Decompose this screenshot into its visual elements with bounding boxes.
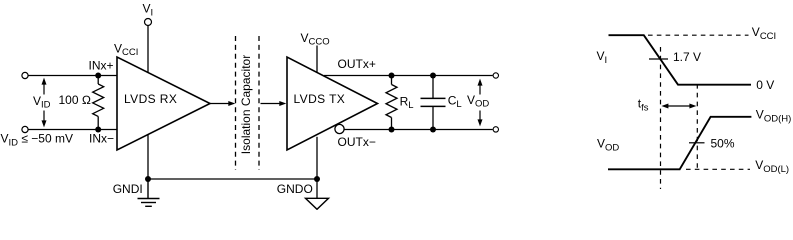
wire RX ground pin xyxy=(147,134,149,179)
svg-text:OUTx+: OUTx+ xyxy=(338,57,376,71)
svg-text:OUTx−: OUTx− xyxy=(338,135,376,149)
junction node GNDO xyxy=(314,176,320,182)
wire OUTx- xyxy=(344,129,492,131)
op-amp U1 LVDS RX triangle xyxy=(117,57,210,150)
wire VI to RX VCCI pin xyxy=(147,26,149,73)
isolation barrier dashed line left xyxy=(235,36,237,170)
capacitor CL xyxy=(421,76,446,130)
VID measurement arrow (double-headed, split) xyxy=(42,78,47,128)
junction dot INx+ xyxy=(95,73,101,79)
input terminal J1+ (open circle) xyxy=(22,72,28,78)
svg-text:Isolation Capacitor: Isolation Capacitor xyxy=(239,55,253,154)
terminal VI (open circle) xyxy=(145,19,152,26)
output terminal top (open circle) xyxy=(493,73,498,78)
svg-text:GNDI: GNDI xyxy=(113,182,143,196)
svg-text:0 V: 0 V xyxy=(756,78,774,92)
VOD measurement arrow (double-headed, split) xyxy=(478,79,483,127)
junction dot CL bottom xyxy=(430,127,436,133)
svg-text:INx+: INx+ xyxy=(88,58,113,72)
waveform VOD trace xyxy=(608,117,751,170)
resistor RL xyxy=(386,76,397,130)
input terminal J1- (open circle) xyxy=(22,126,28,132)
junction node GNDI xyxy=(145,176,151,182)
op-amp U2 LVDS TX triangle xyxy=(287,57,378,150)
dashed level VCCI xyxy=(648,34,749,36)
junction dot RL bottom xyxy=(389,127,395,133)
wire INx- input xyxy=(28,129,117,131)
svg-text:LVDS RX: LVDS RX xyxy=(124,92,177,106)
svg-text:50%: 50% xyxy=(711,137,735,151)
wire GNDI to GNDO xyxy=(148,178,317,180)
wire isolation to TX input arrow xyxy=(261,103,281,105)
resistor 100 ohm (termination) xyxy=(93,76,104,130)
svg-text:GNDO: GNDO xyxy=(277,182,313,196)
svg-text:100 Ω: 100 Ω xyxy=(59,93,92,107)
wire TX ground pin xyxy=(316,137,318,199)
tfs measurement arrow (double-headed) xyxy=(661,104,696,109)
wire VCCO pin xyxy=(316,46,318,73)
ground GNDI (three-bar earth) xyxy=(138,179,160,206)
junction dot INx- xyxy=(95,127,101,133)
dashed vertical at VI 50% crossing xyxy=(660,47,662,189)
tick 50% crossing xyxy=(689,142,705,144)
svg-text:1.7 V: 1.7 V xyxy=(673,50,701,64)
svg-text:LVDS TX: LVDS TX xyxy=(294,92,346,106)
wire OUTx+ xyxy=(324,75,493,77)
svg-text:INx−: INx− xyxy=(89,132,114,146)
dashed level VOD(L) xyxy=(686,168,750,170)
wire INx+ input xyxy=(28,75,117,77)
inverting bubble OUTx- xyxy=(335,124,344,133)
junction dot RL top xyxy=(389,73,395,79)
dashed vertical at VOD 50% crossing xyxy=(696,84,698,170)
junction dot CL top xyxy=(430,73,436,79)
waveform VI trace xyxy=(609,35,752,84)
tick 1.7 V crossing xyxy=(649,58,668,60)
ground GNDO (chassis triangle) xyxy=(306,198,329,209)
isolation barrier dashed line right xyxy=(258,36,260,170)
wire RX output arrow to isolation xyxy=(210,103,230,105)
output terminal bottom (open circle) xyxy=(493,127,498,132)
